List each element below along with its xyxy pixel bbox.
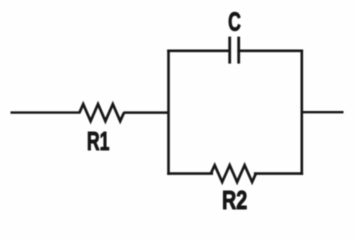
svg-text:C: C <box>228 7 241 36</box>
wire bottom branch left <box>169 172 212 175</box>
svg-text:R1: R1 <box>87 127 110 156</box>
wire right branch vertical <box>300 51 303 174</box>
wire R1 to node A <box>124 111 170 114</box>
capacitor C <box>230 37 239 64</box>
resistor R1 <box>80 104 125 121</box>
resistor R2 <box>211 165 256 182</box>
wire top branch right <box>239 49 302 52</box>
wire top branch left <box>169 49 230 52</box>
wire bottom branch right <box>255 172 302 175</box>
svg-text:R2: R2 <box>222 185 247 214</box>
wire left branch vertical <box>167 51 170 174</box>
wire right lead <box>302 111 344 113</box>
wire left lead <box>11 111 81 113</box>
